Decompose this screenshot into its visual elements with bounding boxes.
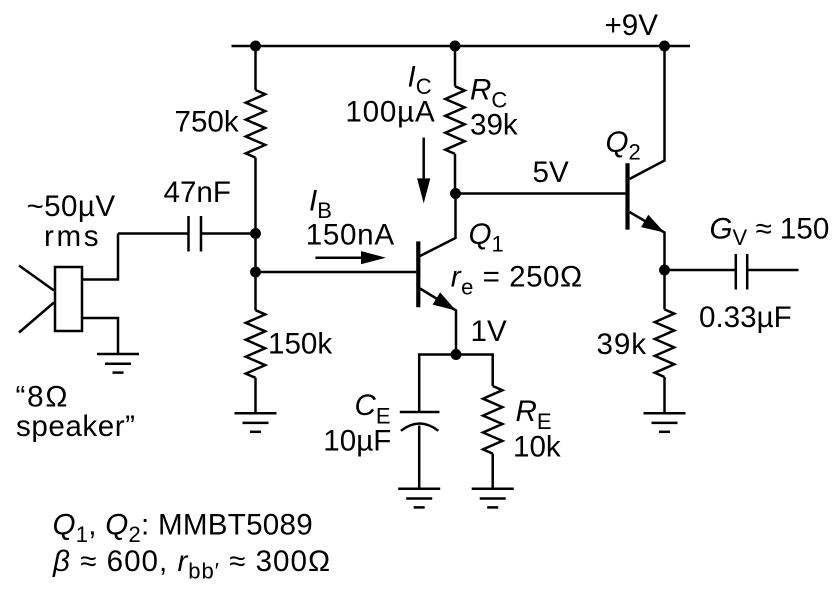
svg-text:39k: 39k <box>470 109 518 142</box>
svg-text:Q2: Q2 <box>606 126 641 165</box>
svg-text:Q1, Q2: MMBT5089: Q1, Q2: MMBT5089 <box>53 508 313 547</box>
svg-text:750k: 750k <box>175 106 239 139</box>
svg-text:IB: IB <box>309 184 332 223</box>
svg-text:150k: 150k <box>268 328 332 361</box>
svg-text:0.33µF: 0.33µF <box>699 301 792 334</box>
svg-text:39k: 39k <box>597 328 647 361</box>
svg-text:150nA: 150nA <box>306 219 395 252</box>
svg-text:1V: 1V <box>471 315 507 348</box>
svg-text:CE: CE <box>355 389 391 429</box>
svg-text:5V: 5V <box>533 156 569 189</box>
svg-text:RE: RE <box>516 395 552 434</box>
svg-text:GV ≈ 150: GV ≈ 150 <box>710 213 830 251</box>
svg-text:+9V: +9V <box>605 9 659 42</box>
svg-text:Q1: Q1 <box>469 218 504 257</box>
svg-text:speaker”: speaker” <box>16 410 136 443</box>
svg-text:~50µV: ~50µV <box>27 190 116 223</box>
svg-text:“8Ω: “8Ω <box>16 381 70 414</box>
svg-text:47nF: 47nF <box>164 176 231 209</box>
svg-text:re = 250Ω: re = 250Ω <box>451 261 583 300</box>
svg-text:IC: IC <box>408 61 432 100</box>
svg-text:RC: RC <box>470 74 507 113</box>
svg-text:rms: rms <box>44 220 101 253</box>
svg-text:10k: 10k <box>513 430 561 463</box>
svg-text:100µA: 100µA <box>345 95 435 128</box>
svg-text:β ≈ 600, rbb′ ≈ 300Ω: β ≈ 600, rbb′ ≈ 300Ω <box>52 545 331 584</box>
svg-text:10µF: 10µF <box>323 424 391 457</box>
